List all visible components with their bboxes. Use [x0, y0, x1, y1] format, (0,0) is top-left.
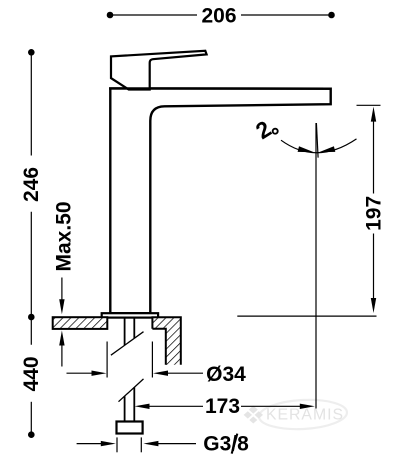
svg-text:G3/8: G3/8	[203, 433, 249, 456]
svg-text:Max.50: Max.50	[52, 201, 75, 271]
svg-text:246: 246	[20, 167, 43, 202]
svg-text:Ø34: Ø34	[206, 363, 246, 386]
svg-text:197: 197	[363, 196, 386, 231]
svg-text:440: 440	[20, 356, 43, 391]
svg-text:KERAMIS: KERAMIS	[266, 407, 344, 424]
svg-text:206: 206	[201, 5, 236, 28]
svg-text:173: 173	[205, 395, 240, 418]
